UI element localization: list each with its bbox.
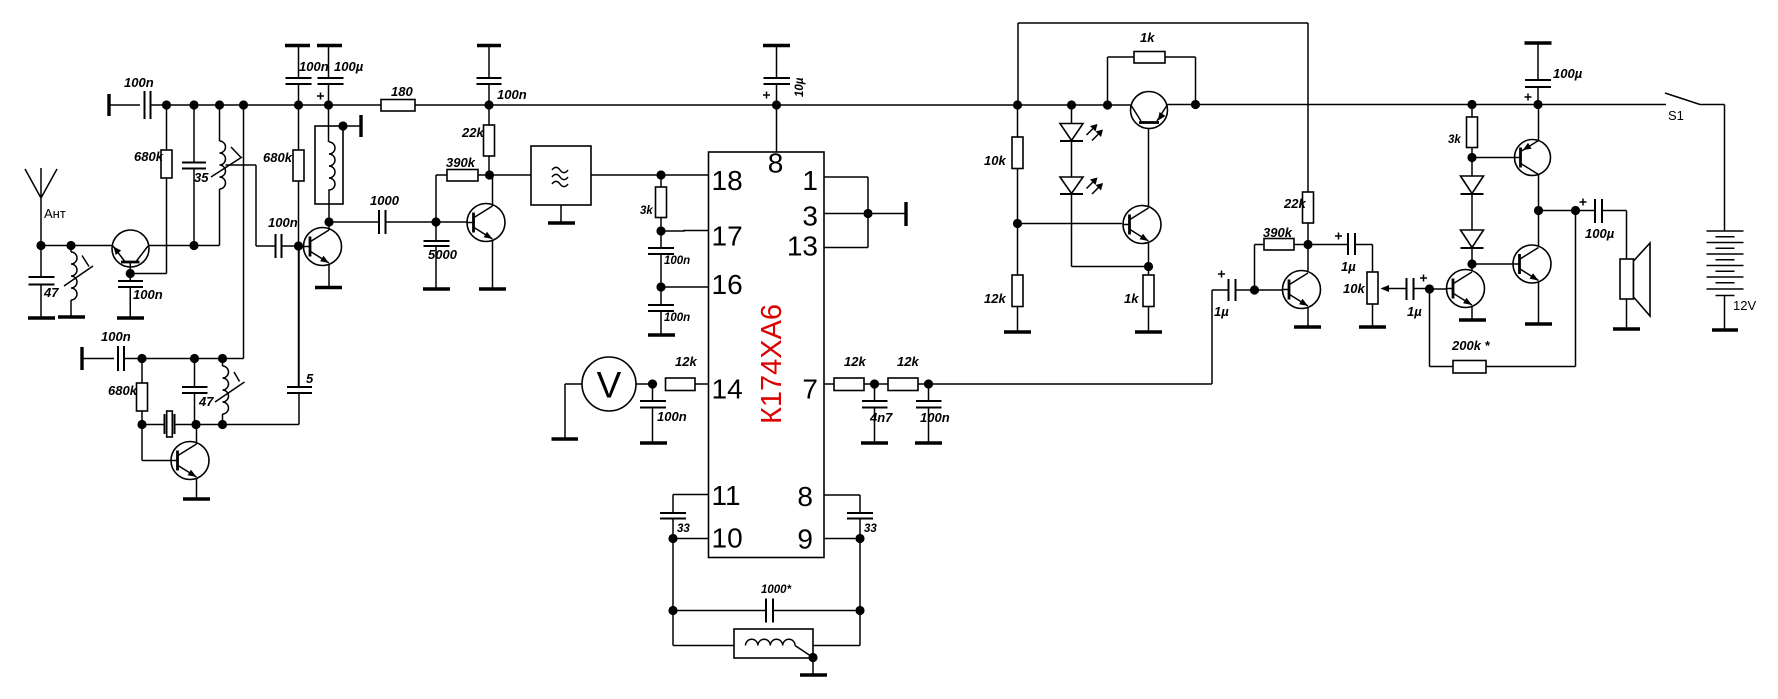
svg-text:22k: 22k (461, 125, 484, 140)
svg-text:12k: 12k (844, 354, 866, 369)
svg-text:S1: S1 (1668, 108, 1684, 123)
capacitor 47 antenna (29, 246, 60, 318)
wire: T3 collector to 22k node (492, 175, 494, 206)
junction 1u T6 base (1425, 284, 1434, 293)
resistor 390k feedback T3 (436, 155, 490, 222)
junction 3k diode T7 base (1467, 153, 1476, 162)
svg-text:100n: 100n (124, 75, 154, 90)
capacitor 47 osc (182, 359, 214, 425)
junction rail L1 (215, 100, 224, 109)
svg-text:100n: 100n (664, 312, 690, 324)
svg-text:1000: 1000 (370, 193, 400, 208)
svg-text:100n: 100n (497, 87, 527, 102)
junction 3k pin17 (656, 226, 665, 235)
wire: pin 11 to cap 33 left (673, 495, 709, 513)
resistor 12k lower (984, 224, 1023, 332)
capacitor 100n at pin 14 (640, 384, 687, 442)
reference coil boxed (osc tank) (673, 611, 860, 675)
wire: Q4 emitter (1148, 242, 1150, 267)
svg-text:V: V (597, 365, 622, 406)
svg-text:18: 18 (712, 165, 743, 196)
terminal bar (pin 3) (904, 202, 907, 226)
svg-text:Ант: Ант (44, 206, 66, 221)
resistor 1k collector-emitter bridge (1108, 30, 1196, 105)
svg-text:33: 33 (677, 523, 690, 535)
junction rail pin8 (772, 100, 781, 109)
junction rail LED (1067, 100, 1076, 109)
junction diode T6 collector T8 base (1467, 259, 1476, 268)
wire: T8 collector (1538, 211, 1540, 247)
capacitor 100u electrolytic top-left (317, 46, 364, 106)
capacitor 100u supply electrolytic (1525, 43, 1583, 105)
svg-text:12k: 12k (675, 354, 697, 369)
junction rail 680k3 (294, 100, 303, 109)
wire: to pin 17 (661, 230, 709, 233)
svg-text:1: 1 (802, 165, 818, 196)
capacitor 5 osc output (287, 246, 314, 425)
resistor 12k pin 7 first (824, 354, 875, 391)
svg-text:180: 180 (391, 84, 413, 99)
svg-text:390k: 390k (1263, 225, 1293, 240)
junction 1000-390k-5000 (431, 217, 440, 226)
transistor Q4 (AGC) (1123, 206, 1161, 244)
junction rail osc column (239, 100, 248, 109)
capacitor 35 (trimmer cap) (182, 105, 209, 246)
junction osc row 47 (190, 354, 199, 363)
wire: T6 collector (1471, 264, 1473, 271)
svg-text:5: 5 (306, 371, 314, 386)
ceramic filter (490, 146, 709, 222)
wire: main supply rail left part (109, 104, 1131, 106)
junction rail top loop (1013, 100, 1022, 109)
capacitor 1u output electrolytic T5 (1308, 233, 1373, 275)
svg-text:1µ: 1µ (1341, 259, 1356, 274)
inductor L3 tunable (osc) (215, 359, 245, 425)
inductor L1 tunable with tap (211, 105, 276, 246)
svg-text:1µ: 1µ (1407, 304, 1422, 319)
wire: T4 collector (196, 425, 198, 445)
wire: T4 base (142, 425, 171, 461)
wire: rail to oscillator column (243, 105, 245, 359)
junction 10k 12k base Q4 (1013, 219, 1022, 228)
svg-text:680k: 680k (108, 383, 138, 398)
resistor 22k (461, 105, 495, 175)
ground (under T1 base cap) (117, 316, 144, 319)
transistor T4 (oscillator) (171, 442, 209, 480)
junction 100n pin7 (924, 379, 933, 388)
junction 22k 390k T5 (1303, 240, 1312, 249)
svg-text:390k: 390k (446, 155, 476, 170)
resistor 680k (third, to mixer base) (263, 105, 304, 387)
junction osc row 680k2 (137, 354, 146, 363)
junction xtal right T4 (191, 420, 200, 429)
svg-text:7: 7 (802, 374, 818, 405)
junction rail 3k (1467, 100, 1476, 109)
wire: pin 10 node down (673, 539, 709, 611)
capacitor 100n at 22k top (477, 46, 527, 106)
junction output node (1534, 206, 1543, 215)
wire: Q4 collector to Q3 base (1148, 124, 1150, 207)
junction voltmeter 12k (648, 379, 657, 388)
diode D3 (1461, 158, 1484, 195)
wire: LED chain to 1k node (1072, 194, 1149, 267)
svg-text:1000*: 1000* (761, 584, 792, 596)
ground (under 5000) (423, 287, 450, 290)
IC K174XA6 body (709, 152, 825, 558)
junction T1 collector cap35 (189, 241, 198, 250)
junction 1u 390k T5 base (1250, 285, 1259, 294)
resistor 3k at pin 18/17 (640, 175, 667, 231)
junction rail 100u right (1533, 100, 1542, 109)
junction T2 base (294, 241, 303, 250)
junction: coil to ground (808, 653, 817, 662)
LED D1 (1060, 105, 1103, 141)
svg-text:200k *: 200k * (1451, 338, 1491, 353)
svg-text:100n: 100n (664, 255, 690, 267)
svg-text:10: 10 (712, 523, 743, 554)
junction pin10 cap33 (668, 534, 677, 543)
transistor T7 (upper output PNP) (1515, 105, 1551, 211)
junction rail 680k (162, 100, 171, 109)
svg-text:100n: 100n (657, 409, 687, 424)
junction rail 1k right (1191, 100, 1200, 109)
svg-text:680k: 680k (263, 150, 293, 165)
junction 1000* right (855, 606, 864, 615)
svg-text:10k: 10k (984, 153, 1006, 168)
ground (12k) (1004, 330, 1031, 333)
capacitor 5000 (424, 222, 458, 288)
wire: T5 base (1255, 289, 1283, 291)
svg-text:8: 8 (797, 481, 813, 512)
svg-text:К174ХА6: К174ХА6 (756, 304, 788, 424)
ground (voltmeter) (552, 437, 579, 440)
transistor T1 (RF amp) (112, 230, 149, 274)
junction rail 22k (484, 100, 493, 109)
ground (T8) (1525, 322, 1552, 325)
svg-text:1k: 1k (1140, 30, 1155, 45)
transistor Q3 (series pass PNP) (1131, 92, 1168, 129)
wire: left input terminal (107, 94, 110, 116)
ground (T3 emitter) (479, 287, 506, 290)
wire: T8 emitter (1538, 282, 1540, 323)
svg-text:100n: 100n (101, 329, 131, 344)
wire: T3 emitter to ground (492, 240, 494, 288)
junction T2 collector (324, 217, 333, 226)
svg-text:1µ: 1µ (1214, 304, 1229, 319)
junction rail cap35 (189, 100, 198, 109)
svg-text:35: 35 (194, 170, 209, 185)
terminal bar (IF coil top) (359, 115, 362, 137)
wire: pin 9 node down (824, 539, 860, 611)
wire: osc input (82, 358, 114, 360)
wire: T5 emitter (1307, 307, 1309, 326)
svg-text:680k: 680k (134, 149, 164, 164)
diode D4 (1461, 194, 1484, 264)
wire: main supply rail right part (1167, 104, 1666, 106)
capacitor 100n pin16-gnd (648, 287, 690, 334)
wire: to T3 base (436, 221, 467, 223)
wire: T2 emitter (328, 264, 330, 286)
svg-text:100n: 100n (133, 287, 163, 302)
svg-text:8: 8 (768, 148, 784, 179)
svg-text:5000: 5000 (428, 247, 458, 262)
ground (100n pin7) (915, 441, 942, 444)
resistor 12k pin 7 second (875, 354, 929, 391)
LED D2 (1060, 141, 1103, 194)
junction: coil box corner (338, 121, 347, 130)
svg-text:11: 11 (712, 480, 741, 511)
resistor 680k (second, osc) (108, 359, 148, 425)
svg-text:12k: 12k (984, 291, 1006, 306)
junction filter out pin18 (656, 170, 665, 179)
resistor 3k output stage (1448, 105, 1478, 158)
svg-text:17: 17 (712, 221, 743, 252)
svg-text:3: 3 (802, 201, 818, 232)
antenna (25, 168, 66, 246)
capacitor 100n osc input (101, 329, 244, 371)
IF transformer boxed coil (315, 105, 361, 222)
voltmeter V (565, 357, 653, 438)
junction rail 1k left (1103, 100, 1112, 109)
svg-text:10k: 10k (1343, 281, 1365, 296)
capacitor 100n at T1 base (118, 274, 163, 318)
ground (T5) (1294, 325, 1321, 328)
capacitor 100u output to speaker (1539, 199, 1627, 260)
wire: pins 1,3,13 tied to terminal (824, 177, 906, 248)
wire: T2 collector (328, 126, 330, 230)
svg-text:100n: 100n (268, 215, 298, 230)
capacitor 33 right (847, 513, 877, 539)
capacitor 100n pin17-16 (648, 231, 690, 287)
capacitor 100n after 12k (916, 384, 950, 442)
junction LED 1k emitter (1144, 262, 1153, 271)
quartz crystal (142, 411, 299, 437)
wire: T6 emitter (1471, 306, 1473, 319)
svg-text:100µ: 100µ (1553, 66, 1583, 81)
junction xtal left (137, 420, 146, 429)
capacitor 1u input electrolytic (1212, 271, 1255, 320)
junction 1000* left (668, 606, 677, 615)
resistor 10k (984, 105, 1023, 224)
capacitor 1000* quartz substitute (673, 584, 860, 623)
resistor 12k pin 14 (666, 354, 709, 391)
wire: diode node to T8 base (1472, 263, 1514, 265)
svg-text:1k: 1k (1124, 291, 1139, 306)
resistor 1k emitter (1124, 267, 1154, 332)
svg-text:12V: 12V (1733, 298, 1756, 313)
ground (speaker) (1613, 327, 1640, 330)
transistor T8 (lower output NPN) (1513, 245, 1551, 283)
wire: T6 base (1430, 288, 1447, 290)
transistor T5 (AF preamp) (1283, 271, 1321, 309)
capacitor 4n7 (862, 384, 893, 442)
ground (osc coil) (800, 673, 827, 676)
wire: antenna node to T1 emitter (41, 245, 112, 247)
capacitor 10u electrolytic at pin 8 (763, 46, 806, 153)
wire: to pin 16 (661, 286, 709, 288)
ground (T4 emitter) (183, 497, 210, 500)
capacitor 1u to power amp (1403, 275, 1430, 320)
ground (T6) (1459, 318, 1486, 321)
ground (T2 emitter) (315, 286, 342, 289)
ground (pot) (1359, 325, 1386, 328)
battery 12V (1707, 231, 1757, 329)
capacitor 100n input top-left (124, 75, 154, 119)
ground (4n7) (861, 441, 888, 444)
capacitor 100n decoupling top (x297) (285, 46, 329, 106)
svg-text:100n: 100n (299, 59, 329, 74)
capacitor 1000 coupling (329, 193, 436, 234)
svg-text:12k: 12k (897, 354, 919, 369)
ground (filter) (548, 221, 575, 224)
svg-text:10µ: 10µ (794, 77, 806, 97)
junction pin16 (656, 282, 665, 291)
svg-text:13: 13 (787, 231, 818, 262)
junction osc row L3 (218, 354, 227, 363)
junction: pin3 net (863, 209, 872, 218)
resistor 22k AGC (1283, 192, 1314, 245)
wire: T4 emitter (196, 478, 198, 498)
wire: base Q4 (1018, 223, 1123, 225)
ground (pin14 cap) (640, 441, 667, 444)
resistor 680k (first) (131, 105, 173, 274)
ground (pin16 cap) (648, 333, 675, 336)
svg-text:4n7: 4n7 (869, 410, 893, 425)
ground (battery) (1712, 328, 1738, 331)
wire: pin 8 to cap 33 right (824, 495, 860, 513)
svg-text:33: 33 (864, 523, 877, 535)
resistor 390k T5 feedback (1255, 225, 1309, 290)
resistor 180 in rail (381, 84, 415, 111)
transistor T2 (mixer/osc) (304, 228, 342, 266)
junction pin9 cap33 (855, 534, 864, 543)
capacitor 100n coupling to T2 base (268, 215, 305, 258)
inductor L2 tunable (antenna coil) (64, 246, 93, 317)
svg-text:9: 9 (797, 524, 813, 555)
junction antenna (36, 241, 45, 250)
wire: T5 collector (1307, 245, 1309, 272)
ground (1k) (1135, 330, 1162, 333)
svg-text:22k: 22k (1283, 196, 1306, 211)
wire: 3k node to T7 base (1472, 157, 1515, 159)
junction 200k output (1571, 206, 1580, 215)
svg-text:47: 47 (43, 285, 59, 300)
capacitor 33 left (660, 513, 690, 539)
svg-text:14: 14 (712, 374, 743, 405)
svg-text:100µ: 100µ (334, 59, 364, 74)
junction L2 (66, 241, 75, 250)
junction L3 bottom (218, 420, 227, 429)
resistor 200k* feedback (1430, 211, 1576, 374)
transistor T3 (IF preamp) (467, 204, 505, 242)
ground (under L2) (58, 315, 85, 318)
junction 4n7 (870, 379, 879, 388)
svg-text:3k: 3k (640, 205, 653, 217)
junction 22k-390k-T3 (485, 170, 494, 179)
junction T1 base (126, 269, 135, 278)
switch S1 (1665, 93, 1725, 231)
potentiometer 10k volume (1343, 272, 1403, 326)
wire: audio line pin7 to volume section (929, 290, 1213, 384)
transistor T6 (AF driver) (1447, 270, 1485, 308)
lower oscillator input terminal (80, 347, 83, 370)
svg-text:16: 16 (712, 269, 743, 300)
svg-text:100µ: 100µ (1585, 226, 1615, 241)
speaker (1620, 243, 1650, 328)
wire: T1 collector to tuned circuit (149, 245, 220, 247)
svg-text:47: 47 (198, 394, 214, 409)
junction rail 100u (324, 100, 333, 109)
svg-text:100n: 100n (920, 410, 950, 425)
wire: top loop rail to 22k (1018, 23, 1308, 192)
svg-text:3k: 3k (1448, 134, 1461, 146)
ground (under antenna cap) (28, 316, 55, 319)
